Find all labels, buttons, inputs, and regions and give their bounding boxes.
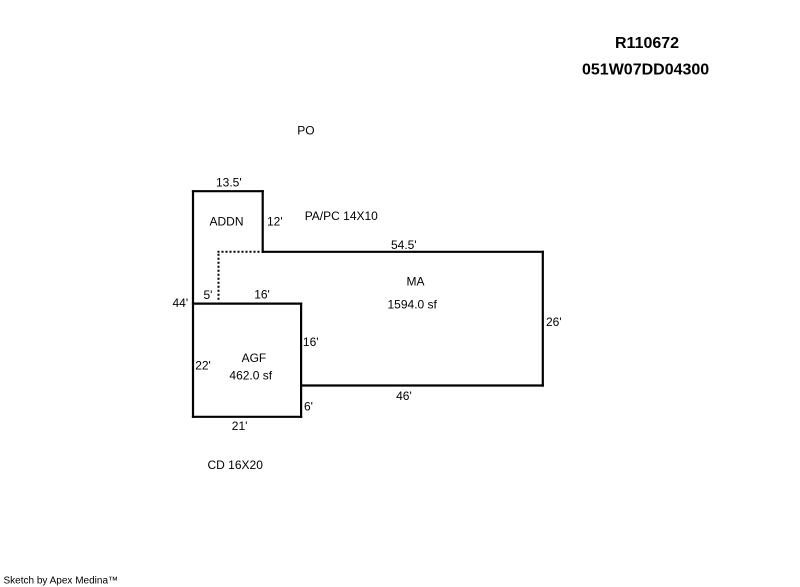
dotted wall: ADDN/MA shared vertical xyxy=(218,254,220,301)
wall: MA bottom horizontal (46') xyxy=(300,384,544,386)
svg-text:051W07DD04300: 051W07DD04300 xyxy=(582,62,709,79)
dotted wall: ADDN/MA shared horizontal xyxy=(218,251,262,253)
svg-text:ADDN: ADDN xyxy=(210,215,244,229)
svg-text:AGF: AGF xyxy=(242,351,267,365)
wall: AGF top horizontal (5' + 16') xyxy=(192,303,302,305)
svg-text:16': 16' xyxy=(303,335,319,349)
svg-text:12': 12' xyxy=(267,215,283,229)
svg-text:PO: PO xyxy=(297,124,314,138)
svg-text:13.5': 13.5' xyxy=(216,176,242,190)
svg-text:22': 22' xyxy=(195,358,211,372)
svg-text:16': 16' xyxy=(254,288,270,302)
svg-text:44': 44' xyxy=(173,296,189,310)
svg-text:PA/PC 14X10: PA/PC 14X10 xyxy=(305,209,378,223)
svg-text:CD 16X20: CD 16X20 xyxy=(208,458,264,472)
svg-text:46': 46' xyxy=(396,389,412,403)
svg-text:462.0 sf: 462.0 sf xyxy=(229,368,272,382)
svg-text:R110672: R110672 xyxy=(615,35,679,52)
wall: left vertical (west side, 44') xyxy=(192,190,194,418)
wall: MA right vertical (26') xyxy=(542,251,544,387)
wall: ADDN top (13.5') xyxy=(192,190,264,192)
svg-text:26': 26' xyxy=(546,315,562,329)
svg-text:1594.0 sf: 1594.0 sf xyxy=(388,298,438,312)
svg-text:MA: MA xyxy=(407,275,425,289)
svg-text:54.5': 54.5' xyxy=(391,238,417,252)
svg-text:Sketch by Apex Medina™: Sketch by Apex Medina™ xyxy=(4,576,119,587)
svg-text:6': 6' xyxy=(304,400,313,414)
wall: AGF bottom horizontal (21') xyxy=(192,416,302,418)
wall: AGF right vertical (16' + 6') xyxy=(300,303,302,418)
wall: MA top horizontal (54.5') xyxy=(262,251,544,253)
svg-text:21': 21' xyxy=(232,419,248,433)
wall: ADDN right vertical (12') xyxy=(262,190,264,253)
svg-text:5': 5' xyxy=(204,288,213,302)
